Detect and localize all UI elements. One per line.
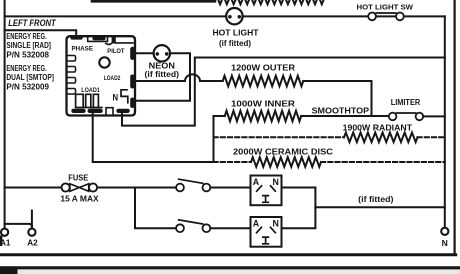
svg-text:(if fitted): (if fitted): [145, 70, 180, 79]
wire 1200W element to smoothtop limiter node: [303, 81, 371, 116]
svg-text:N: N: [273, 176, 280, 187]
label 1200W OUTER: [231, 62, 295, 72]
label 1000W INNER: [231, 98, 295, 108]
regulator cam circle: [99, 57, 109, 67]
svg-text:N: N: [442, 238, 448, 248]
label energy regulator part numbers: [6, 31, 54, 92]
svg-text:N: N: [273, 218, 280, 229]
terminal A2: [27, 211, 38, 248]
wire switch 2 to selector box 2: [210, 227, 250, 229]
fuse F1 15A: [62, 183, 98, 191]
wire LOAD1 drop and run to riser: [93, 113, 214, 163]
svg-text:1900W RADIANT: 1900W RADIANT: [343, 122, 413, 132]
svg-text:LOAD2: LOAD2: [104, 75, 121, 82]
wire (if fitted) link to neutral bus: [315, 206, 444, 208]
svg-text:PILOT: PILOT: [107, 48, 125, 55]
label 2000W CERAMIC DISC: [233, 147, 333, 157]
terminal N (neutral): [441, 228, 448, 249]
regulator top pockets and divider: [88, 37, 108, 41]
switch hot light sw: [368, 13, 404, 21]
svg-text:PHASE: PHASE: [72, 45, 94, 52]
scan artifact marks: [0, 236, 18, 274]
svg-text:P/N 532009: P/N 532009: [6, 82, 49, 92]
svg-text:LEFT FRONT: LEFT FRONT: [8, 18, 57, 28]
svg-text:A: A: [253, 176, 260, 187]
wire branch from fuse line down to switch line 2: [135, 188, 176, 229]
svg-text:P/N 532008: P/N 532008: [6, 49, 49, 59]
wire selector boxes to joining vertical: [282, 188, 316, 229]
svg-text:2000W CERAMIC DISC: 2000W CERAMIC DISC: [233, 147, 333, 157]
resistor 1000W inner element: [225, 111, 301, 121]
selector switch box 2 (A-I-N): [251, 217, 282, 247]
next-section top thick line: [0, 266, 460, 269]
switch limiter: [389, 113, 423, 121]
label HOT LIGHT SW: [357, 3, 414, 12]
label NEON (if fitted): [145, 60, 180, 79]
wire top supply line to hot light and hot light switch: [5, 15, 445, 17]
label 1900W RADIANT: [343, 122, 413, 132]
shading below divider: [0, 270, 460, 274]
resistor grill element (cropped at top edge): [92, 0, 324, 4]
svg-text:A: A: [253, 218, 260, 229]
wire neon return to regulator N terminal: [135, 53, 190, 101]
svg-text:15 A MAX: 15 A MAX: [60, 193, 99, 203]
wire PILOT to neon: [135, 52, 153, 54]
wire limiter to neutral bus: [423, 115, 445, 117]
label FUSE 15 A MAX: [60, 174, 99, 204]
svg-text:1200W OUTER: 1200W OUTER: [231, 62, 295, 72]
wire neutral bus (right vertical): [444, 16, 446, 228]
regulator terminal bar top-middle: [92, 37, 105, 41]
svg-text:HOT LIGHT: HOT LIGHT: [213, 27, 260, 37]
svg-text:FUSE: FUSE: [68, 174, 88, 183]
wire smoothtop line to limiter: [301, 115, 389, 117]
svg-text:SMOOTHTOP: SMOOTHTOP: [312, 105, 370, 115]
svg-text:NEON: NEON: [149, 60, 175, 70]
svg-text:N: N: [113, 92, 119, 102]
energy regulator RG1 body: [67, 35, 136, 115]
svg-text:HOT LIGHT SW: HOT LIGHT SW: [357, 3, 414, 12]
lamp neon: [154, 45, 170, 61]
svg-text:LOAD1: LOAD1: [81, 87, 100, 94]
frame bottom thick line: [0, 253, 456, 256]
regulator terminal bar PILOT (right edge): [130, 47, 134, 60]
svg-text:LIMITER: LIMITER: [391, 98, 421, 107]
label SMOOTHTOP: [312, 105, 370, 115]
regulator N bracket: [121, 90, 128, 103]
regulator terminal bar N (right edge): [130, 98, 134, 109]
wire LOAD2 to 1200W element with hop over verticals: [135, 74, 223, 81]
regulator bottom terminal bars: [71, 109, 85, 113]
resistor 1200W outer element: [223, 76, 304, 86]
regulator labels: [72, 45, 126, 102]
frame right border: [454, 0, 456, 255]
svg-text:1000W INNER: 1000W INNER: [231, 98, 295, 108]
svg-text:DUAL [SMTOP]: DUAL [SMTOP]: [6, 72, 54, 82]
wire phase feed to regulator PHASE terminal: [5, 30, 77, 37]
switch main switch 2: [176, 220, 210, 232]
regulator left comb tabs: [68, 56, 76, 62]
resistor 2000W ceramic disc element with dashed leads: [214, 157, 445, 167]
regulator LOAD1 square-wave contact: [76, 94, 102, 107]
wire fuse line from phase bus to selector box 1: [5, 187, 251, 189]
selector switch box 1 (A-I-N): [251, 176, 282, 206]
switch main switch 1: [176, 179, 210, 191]
regulator bottom notch: [106, 108, 113, 115]
svg-text:(if fitted): (if fitted): [219, 39, 251, 48]
regulator terminal bar LOAD2 (right edge): [130, 75, 134, 89]
label HOT LIGHT (if fitted): [213, 27, 260, 48]
lamp hot light: [226, 8, 242, 24]
wire riser to 1000W element: [214, 116, 225, 162]
resistor 1900W radiant element with dashed leads: [214, 133, 445, 143]
regulator terminal bar top-left (PHASE): [70, 36, 82, 40]
terminal A1: [0, 224, 32, 248]
wire phase bus (left vertical L): [4, 0, 6, 224]
svg-text:(if fitted): (if fitted): [358, 195, 394, 204]
wire regulator N to neutral bus: [122, 58, 445, 126]
label LIMITER: [391, 98, 421, 107]
section label LEFT FRONT: [8, 18, 57, 28]
svg-text:A2: A2: [27, 238, 38, 248]
label (if fitted): [358, 195, 394, 204]
